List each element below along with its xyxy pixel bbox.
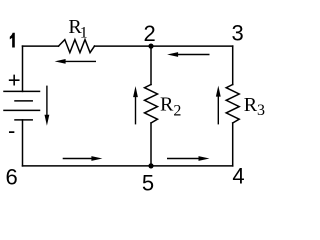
battery long plate lower (4, 109, 40, 111)
battery long plate top (4, 90, 40, 92)
wire left vertical lower (battery - to node 6) (22, 120, 24, 166)
svg-text:2: 2 (144, 21, 156, 46)
wire top right segment (R1 to node 3) (95, 45, 233, 47)
node 1 label (10, 33, 15, 48)
svg-text:3: 3 (232, 20, 244, 45)
svg-text:4: 4 (232, 163, 244, 188)
wire right vertical upper (node 3 to R3) (232, 46, 234, 84)
wire left vertical upper (node 1 to battery +) (22, 46, 24, 91)
current arrow top mid-right (pointing left) (177, 54, 210, 56)
current arrow bottom middle (pointing right) (167, 158, 200, 160)
svg-text:-: - (8, 118, 15, 143)
svg-text:5: 5 (142, 170, 154, 195)
current arrow beside R2 (pointing up) (135, 97, 137, 124)
junction node 2 dot (148, 44, 153, 49)
resistor R2 zigzag (145, 85, 158, 124)
current arrow beside R3 (pointing up) (217, 97, 219, 125)
battery short plate bottom (15, 119, 32, 121)
wire bottom (node 6 to node 4) (23, 165, 233, 167)
wire middle vertical lower (R2 to node 5) (150, 123, 152, 166)
junction node 5 dot (148, 163, 153, 168)
wire right vertical lower (R3 to node 4) (232, 123, 234, 166)
current arrow beside battery (pointing down) (46, 86, 48, 115)
wire top left segment (node 1 to R1) (23, 45, 59, 47)
current arrow bottom left (pointing right) (63, 158, 93, 160)
svg-text:+: + (8, 67, 21, 92)
current arrow under R1 (pointing left) (64, 60, 96, 62)
wire middle vertical upper (node 2 to R2) (150, 46, 152, 84)
resistor R3 zigzag (226, 85, 239, 124)
svg-text:6: 6 (6, 164, 18, 189)
battery short plate upper (15, 100, 32, 102)
resistor R1 zigzag (59, 40, 95, 53)
